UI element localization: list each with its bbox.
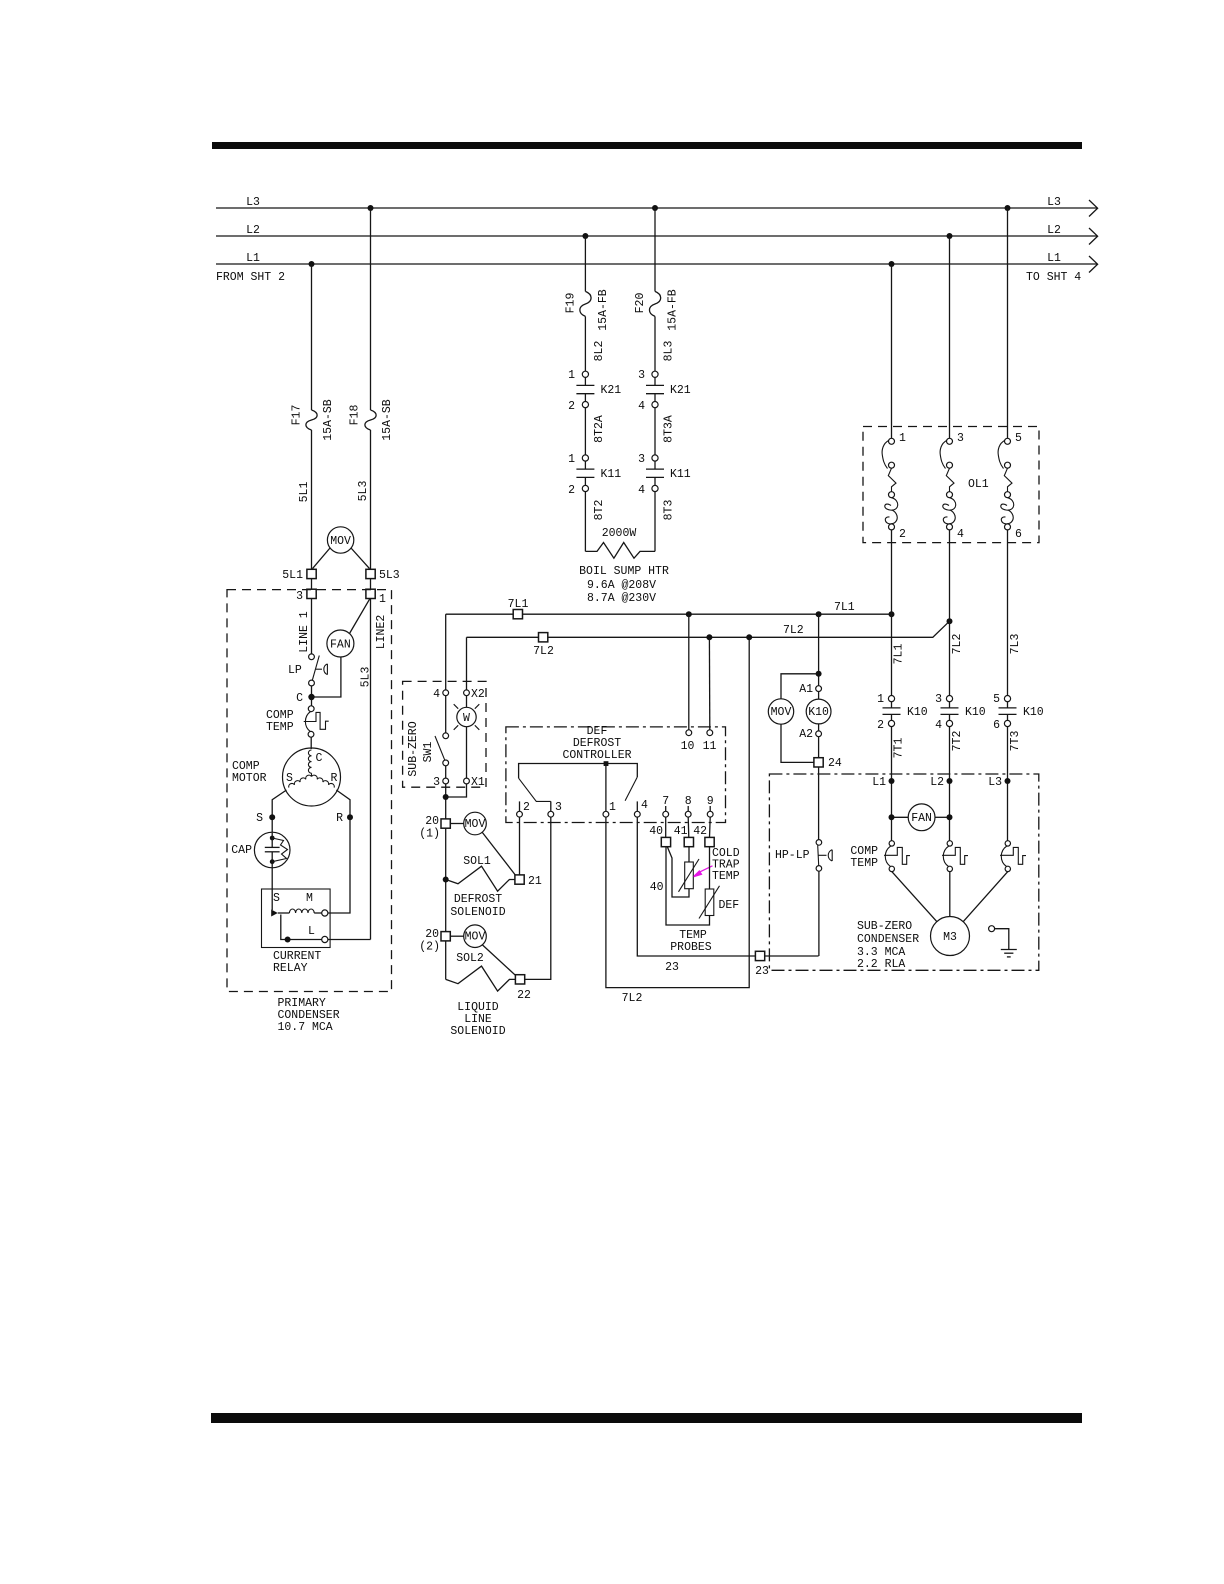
- node L1: [889, 778, 895, 784]
- svg-text:K10: K10: [808, 706, 829, 719]
- terminal 5L1: [307, 569, 316, 578]
- border rule top: [212, 142, 1082, 149]
- svg-text:8T3: 8T3: [663, 500, 676, 521]
- svg-text:TEMP: TEMP: [850, 857, 878, 870]
- svg-text:LINE2: LINE2: [375, 615, 388, 650]
- svg-text:4: 4: [935, 719, 942, 732]
- junction L: [285, 937, 291, 943]
- thermal switch COMP TEMP (primary): [308, 706, 314, 712]
- svg-text:2: 2: [899, 528, 906, 541]
- svg-text:2: 2: [877, 719, 884, 732]
- border rule bottom: [211, 1413, 1082, 1423]
- wire F18 to 5L3: [370, 430, 372, 569]
- svg-text:22: 22: [517, 989, 531, 1002]
- relay coil K10: [806, 699, 831, 724]
- svg-text:SUB-ZERO: SUB-ZERO: [407, 721, 420, 776]
- svg-text:7L1: 7L1: [893, 644, 906, 665]
- svg-text:K10: K10: [907, 706, 928, 719]
- svg-text:15A-SB: 15A-SB: [381, 399, 394, 441]
- wire L2 to OL1: [949, 236, 951, 438]
- svg-text:10.7 MCA: 10.7 MCA: [278, 1021, 333, 1034]
- svg-text:L1: L1: [246, 252, 260, 265]
- varistor MOV (top): [327, 527, 353, 553]
- box PRIMARY CONDENSER (dashed): [227, 590, 392, 992]
- svg-text:1: 1: [877, 693, 884, 706]
- fuse F19 15A-FB: [580, 291, 591, 316]
- terminal 9: [709, 806, 711, 811]
- terminal X1: [464, 778, 470, 784]
- node L2: [947, 778, 953, 784]
- fan motor FAN: [327, 630, 354, 657]
- junction L3-F20: [652, 205, 658, 211]
- contact K10 (5-6): [993, 693, 1044, 841]
- svg-text:L2: L2: [1047, 224, 1061, 237]
- svg-text:RELAY: RELAY: [273, 962, 308, 975]
- relay coil: [289, 909, 314, 913]
- junction 7L2-11: [706, 634, 712, 640]
- svg-text:2000W: 2000W: [602, 527, 637, 540]
- wire L1 down to F17: [311, 264, 313, 410]
- svg-text:7L2: 7L2: [533, 645, 554, 658]
- svg-text:8L3: 8L3: [663, 341, 676, 362]
- svg-text:42: 42: [693, 825, 707, 838]
- wire bus L1: [216, 263, 1097, 265]
- fuse F20 15A-FB: [649, 291, 660, 316]
- terminal 1: [605, 764, 607, 812]
- contact K10 (3-4): [935, 693, 986, 841]
- wire M to R column: [328, 817, 350, 913]
- svg-text:8T3A: 8T3A: [663, 415, 676, 443]
- svg-text:7L2: 7L2: [951, 634, 964, 655]
- winding R: [312, 774, 336, 787]
- svg-text:M3: M3: [943, 931, 957, 944]
- junction L2-F19: [582, 233, 588, 239]
- svg-text:SOLENOID: SOLENOID: [450, 906, 505, 919]
- svg-text:8L2: 8L2: [593, 341, 606, 362]
- varistor MOV (K10): [781, 674, 819, 699]
- svg-text:SUB-ZERO: SUB-ZERO: [857, 920, 912, 933]
- switch SW1 blade: [445, 696, 447, 733]
- wire rail 7L2: [467, 621, 950, 637]
- junction L1-OL1: [889, 261, 895, 267]
- svg-text:CONTROLLER: CONTROLLER: [562, 749, 631, 762]
- svg-text:TEMP: TEMP: [712, 870, 740, 883]
- svg-text:MOV: MOV: [330, 535, 351, 548]
- svg-text:BOIL SUMP HTR: BOIL SUMP HTR: [579, 565, 669, 578]
- svg-text:HP-LP: HP-LP: [775, 849, 810, 862]
- svg-text:5L3: 5L3: [379, 569, 400, 582]
- terminal 2: [519, 801, 521, 811]
- svg-text:1: 1: [568, 369, 575, 382]
- svg-text:5: 5: [1015, 432, 1022, 445]
- switch blade left: [519, 778, 551, 801]
- svg-text:5: 5: [993, 693, 1000, 706]
- terminal 24: [814, 758, 823, 767]
- svg-text:R: R: [336, 812, 343, 825]
- svg-text:3: 3: [296, 590, 303, 603]
- thermistor DEF: [705, 889, 714, 916]
- wire 5L3 down: [370, 599, 372, 940]
- wire 41 to cold trap: [688, 847, 690, 862]
- svg-text:1: 1: [379, 593, 386, 606]
- resistor BOIL SUMP HTR 2000W: [585, 543, 655, 559]
- svg-text:4: 4: [638, 400, 645, 413]
- wire 1 to 7L2 return: [606, 637, 749, 987]
- junction 7L2-return: [746, 634, 752, 640]
- wire 22 to controller 3: [525, 817, 551, 979]
- terminal 8: [687, 806, 689, 811]
- overload element 1-2: [882, 432, 906, 614]
- wire 8T2: [584, 492, 586, 552]
- fuse F17 15A-SB: [306, 410, 317, 430]
- svg-text:21: 21: [528, 875, 542, 888]
- terminal 42: [705, 837, 714, 846]
- terminal 40: [661, 837, 670, 846]
- svg-text:L3: L3: [246, 196, 260, 209]
- svg-text:LINE 1: LINE 1: [298, 611, 311, 653]
- svg-text:4: 4: [638, 484, 645, 497]
- lamp W: [457, 707, 476, 726]
- svg-text:A2: A2: [799, 728, 813, 741]
- svg-text:K21: K21: [601, 384, 622, 397]
- motor M3: [931, 917, 970, 956]
- terminal 23: [755, 951, 764, 960]
- svg-text:3: 3: [433, 776, 440, 789]
- svg-text:7T2: 7T2: [951, 731, 964, 752]
- svg-text:F18: F18: [349, 405, 362, 426]
- terminal A1: [816, 686, 822, 692]
- wire 20(2) down: [445, 941, 447, 980]
- terminal L: [322, 936, 328, 942]
- svg-text:K10: K10: [1023, 706, 1044, 719]
- svg-text:SOL1: SOL1: [463, 855, 491, 868]
- wire MOV to 5L1: [313, 548, 331, 569]
- svg-text:23: 23: [665, 961, 679, 974]
- switch HP-LP: [816, 840, 822, 846]
- terminal 20 (2): [441, 932, 450, 941]
- wire F20 to K21: [654, 316, 656, 371]
- terminal M: [322, 910, 328, 916]
- svg-text:(1): (1): [419, 828, 440, 841]
- svg-text:FAN: FAN: [911, 812, 932, 825]
- svg-text:8.7A @230V: 8.7A @230V: [587, 592, 656, 605]
- solenoid SOL2: [446, 966, 516, 991]
- wire 7T1 drop: [891, 614, 893, 696]
- svg-text:MOV: MOV: [465, 931, 486, 944]
- svg-text:1: 1: [609, 801, 616, 814]
- svg-text:15A-SB: 15A-SB: [322, 399, 335, 441]
- svg-text:L3: L3: [988, 776, 1002, 789]
- armature arrow: [271, 910, 278, 917]
- svg-text:S: S: [256, 812, 263, 825]
- wire 3 to LP: [311, 599, 313, 655]
- svg-text:MOV: MOV: [771, 706, 792, 719]
- overload element 3-4: [940, 432, 964, 621]
- svg-text:11: 11: [703, 740, 717, 753]
- svg-text:40: 40: [650, 881, 664, 894]
- svg-text:5L3: 5L3: [357, 481, 370, 502]
- wire internal common: [519, 764, 638, 779]
- svg-text:DEFROST: DEFROST: [454, 893, 502, 906]
- svg-text:K10: K10: [965, 706, 986, 719]
- overload element 5-6: [998, 432, 1022, 696]
- terminal 41: [684, 837, 693, 846]
- svg-text:X1: X1: [471, 776, 485, 789]
- relay CURRENT RELAY box: [262, 889, 331, 948]
- junction L3-5L3: [368, 205, 374, 211]
- solenoid SOL1: [446, 866, 515, 891]
- junction 7L2-7T2: [947, 618, 953, 624]
- node S: [269, 814, 275, 820]
- varistor MOV (sol1): [464, 812, 487, 835]
- terminal X2: [464, 690, 470, 696]
- box SUB-ZERO CONDENSER (dash-dot): [769, 774, 1038, 970]
- wire 40 down to def bottom: [666, 847, 710, 925]
- svg-text:L1: L1: [872, 776, 886, 789]
- terminal 7: [665, 806, 667, 811]
- wire 8T3: [654, 492, 656, 552]
- svg-text:F17: F17: [291, 405, 304, 426]
- svg-text:(2): (2): [419, 941, 440, 954]
- svg-text:7L1: 7L1: [508, 598, 529, 611]
- junction internal: [604, 761, 609, 766]
- svg-text:MOTOR: MOTOR: [232, 772, 267, 785]
- svg-text:LP: LP: [288, 664, 302, 677]
- svg-text:PROBES: PROBES: [670, 941, 712, 954]
- svg-text:7L2: 7L2: [622, 992, 643, 1005]
- svg-text:1: 1: [568, 453, 575, 466]
- box SUB-ZERO SW1 (dashed): [403, 681, 486, 787]
- svg-text:7T3: 7T3: [1009, 731, 1022, 752]
- svg-text:5L1: 5L1: [282, 569, 303, 582]
- svg-text:20: 20: [425, 815, 439, 828]
- thermal switch COMP TEMP (L3): [963, 841, 1026, 922]
- terminal 3: [550, 801, 552, 811]
- svg-text:8T2A: 8T2A: [593, 415, 606, 443]
- wire LP to node C: [311, 686, 313, 697]
- wire 42 to def: [709, 847, 711, 889]
- node L3: [1005, 778, 1011, 784]
- svg-text:3: 3: [638, 369, 645, 382]
- svg-text:SOLENOID: SOLENOID: [450, 1025, 505, 1038]
- terminal 1: [366, 589, 375, 598]
- wire MOV to 21: [482, 832, 516, 876]
- svg-text:4: 4: [433, 688, 440, 701]
- svg-text:FAN: FAN: [330, 639, 351, 652]
- wire L1 to OL1: [891, 264, 893, 438]
- wire bus L2: [216, 235, 1097, 237]
- svg-text:15A-FB: 15A-FB: [597, 289, 610, 331]
- wire bus L3: [216, 207, 1097, 209]
- switch LP: [309, 654, 315, 660]
- wire F17 to 5L1: [311, 430, 313, 569]
- wire 4 to 23: [637, 817, 818, 956]
- svg-text:M: M: [306, 892, 313, 905]
- svg-text:24: 24: [828, 757, 842, 770]
- svg-text:2: 2: [568, 484, 575, 497]
- wire 8T2A: [584, 408, 586, 455]
- wire S lead: [272, 790, 286, 833]
- svg-text:4: 4: [957, 528, 964, 541]
- junction 7L1-10: [686, 611, 692, 617]
- wire 7L2 drop to SW1-X2: [466, 637, 468, 690]
- svg-text:CONDENSER: CONDENSER: [857, 933, 919, 946]
- wire 7L2 to 11: [708, 637, 710, 730]
- wire HP-LP to 23: [818, 871, 820, 956]
- wire L to 5L3 column: [328, 939, 371, 941]
- contact K21 (1-2): [582, 371, 588, 377]
- wire C to FAN: [312, 657, 341, 697]
- wire L3 to OL1: [1007, 208, 1009, 438]
- svg-text:2.2 RLA: 2.2 RLA: [857, 958, 905, 971]
- wire MOV to 5L3: [351, 548, 370, 569]
- svg-text:K21: K21: [670, 384, 691, 397]
- wire 24 to HP-LP: [818, 767, 820, 840]
- thermal switch COMP TEMP (L2): [942, 841, 968, 917]
- svg-text:L: L: [308, 925, 315, 938]
- fuse F18 15A-SB: [365, 410, 376, 430]
- terminal 11: [707, 730, 713, 736]
- ground: [989, 926, 995, 932]
- terminal A2: [816, 731, 822, 737]
- wire X1 to junction: [446, 784, 467, 797]
- terminal 22: [515, 975, 524, 984]
- wire 20(1) down: [445, 828, 447, 931]
- junction 7L1-7T1: [889, 611, 895, 617]
- terminal 4: [636, 801, 638, 811]
- svg-text:3: 3: [638, 453, 645, 466]
- svg-text:6: 6: [1015, 528, 1022, 541]
- wire 7T2 drop: [949, 621, 951, 696]
- svg-text:W: W: [463, 712, 470, 725]
- svg-text:L1: L1: [1047, 252, 1061, 265]
- wire 40 branch to cold trap bottom: [667, 847, 689, 897]
- wire L2 down to F19: [584, 236, 586, 291]
- svg-text:41: 41: [674, 825, 688, 838]
- svg-text:L3: L3: [1047, 196, 1061, 209]
- svg-text:MOV: MOV: [465, 818, 486, 831]
- thermal switch COMP TEMP (L1): [884, 841, 937, 922]
- contact K21 (3-4): [652, 371, 658, 377]
- wire armature to L: [281, 915, 322, 940]
- svg-text:K11: K11: [601, 468, 622, 481]
- svg-text:OL1: OL1: [968, 478, 989, 491]
- svg-text:9.6A @208V: 9.6A @208V: [587, 579, 656, 592]
- svg-text:7: 7: [662, 795, 669, 808]
- svg-text:C: C: [296, 692, 303, 705]
- winding S: [288, 774, 312, 787]
- svg-text:40: 40: [649, 825, 663, 838]
- contact K10 (1-2): [877, 693, 928, 841]
- terminal 4: [443, 690, 449, 696]
- terminal 5L3: [366, 569, 375, 578]
- wire R lead: [336, 790, 350, 817]
- callout arrow (magenta): [699, 866, 713, 873]
- wire 7L1 drop to SW1-4: [445, 614, 447, 690]
- compressor motor COMP MOTOR: [283, 748, 341, 806]
- svg-text:5L3: 5L3: [360, 667, 373, 688]
- varistor MOV (sol2): [464, 925, 487, 948]
- svg-text:7L3: 7L3: [1009, 634, 1022, 655]
- svg-text:S: S: [273, 892, 280, 905]
- box DEF DEFROST CONTROLLER (dash-dot): [506, 727, 726, 823]
- wire F19 to K21: [584, 316, 586, 371]
- junction 7L1-K10coil: [816, 611, 822, 617]
- terminal 7L2: [539, 633, 548, 642]
- svg-text:7L2: 7L2: [783, 624, 804, 637]
- svg-text:10: 10: [681, 740, 695, 753]
- svg-text:L2: L2: [930, 776, 944, 789]
- contact K11 (1-2): [582, 455, 588, 461]
- svg-text:C: C: [316, 752, 323, 765]
- svg-text:K11: K11: [670, 468, 691, 481]
- wire 7L1 to 10: [688, 614, 690, 730]
- svg-text:SOL2: SOL2: [456, 952, 484, 965]
- node C: [308, 694, 314, 700]
- svg-text:5L1: 5L1: [298, 482, 311, 503]
- junction L1-5L1: [309, 261, 315, 267]
- wire MOV to 22: [482, 945, 516, 976]
- wire 21 to controller 2: [519, 817, 521, 875]
- svg-text:1: 1: [899, 432, 906, 445]
- svg-text:7L1: 7L1: [834, 601, 855, 614]
- svg-text:3: 3: [957, 432, 964, 445]
- svg-text:2: 2: [523, 801, 530, 814]
- svg-text:F19: F19: [565, 293, 578, 314]
- svg-text:L2: L2: [246, 224, 260, 237]
- wire rail 7L1: [446, 613, 892, 615]
- svg-text:9: 9: [707, 795, 714, 808]
- fan motor FAN (condenser): [908, 804, 935, 831]
- svg-text:CAP: CAP: [231, 844, 252, 857]
- svg-text:7T1: 7T1: [893, 738, 906, 759]
- wire 7 to 40: [665, 817, 667, 837]
- terminal 3: [443, 778, 449, 784]
- thermistor COLD TRAP TEMP: [685, 862, 694, 889]
- svg-text:8: 8: [685, 795, 692, 808]
- box OL1 (dashed): [863, 427, 1039, 543]
- svg-text:4: 4: [641, 799, 648, 812]
- contact K11 (3-4): [652, 455, 658, 461]
- terminal 20 (1): [441, 819, 450, 828]
- svg-text:3: 3: [935, 693, 942, 706]
- svg-text:8T2: 8T2: [593, 500, 606, 521]
- svg-text:15A-FB: 15A-FB: [667, 289, 680, 331]
- junction L3-OL1: [1005, 205, 1011, 211]
- junction L2-OL1: [947, 233, 953, 239]
- switch blade right (open): [625, 777, 637, 801]
- node R: [347, 814, 353, 820]
- wire 8 to 41: [687, 817, 690, 837]
- winding C: [308, 750, 311, 773]
- svg-text:23: 23: [755, 965, 769, 978]
- svg-text:20: 20: [425, 928, 439, 941]
- svg-text:X2: X2: [471, 688, 485, 701]
- svg-text:TO SHT 4: TO SHT 4: [1026, 271, 1081, 284]
- capacitor CAP: [254, 832, 290, 868]
- svg-text:FROM SHT 2: FROM SHT 2: [216, 271, 285, 284]
- svg-text:DEF: DEF: [719, 899, 740, 912]
- svg-text:A1: A1: [799, 683, 813, 696]
- svg-text:2: 2: [568, 400, 575, 413]
- svg-text:SW1: SW1: [422, 742, 435, 763]
- wire 9 to 42: [709, 817, 712, 837]
- terminal 3: [307, 589, 316, 598]
- wire K10 coil branch: [818, 614, 820, 686]
- terminal 7L1: [513, 610, 522, 619]
- svg-text:3: 3: [555, 801, 562, 814]
- wire L3 down to F18: [370, 208, 372, 410]
